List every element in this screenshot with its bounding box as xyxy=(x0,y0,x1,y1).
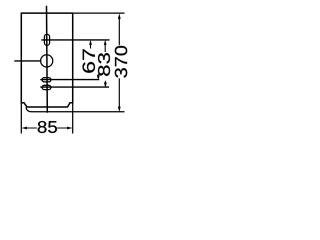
label 67 (rotated) xyxy=(83,49,96,72)
dimension line 67 bottom stub xyxy=(97,74,99,76)
wire right extension line (85) xyxy=(72,103,74,134)
label 83 (rotated) xyxy=(98,53,110,76)
dimension line 83 top stub xyxy=(104,44,106,52)
label 85 xyxy=(38,121,57,133)
arrow 83 top (points up to slot S1 line) xyxy=(104,40,107,45)
circle hole H1 (crosshair circle) xyxy=(41,55,53,67)
slot S2 (upper horizontal slot) xyxy=(42,78,51,82)
arrow 370 bottom (points down to bottom extension) xyxy=(118,107,121,113)
arrow 370 top (points up to top extension) xyxy=(118,13,121,19)
wire left extension line (85) xyxy=(20,103,22,134)
slot S3 (lower horizontal slot) xyxy=(42,85,51,89)
label 370 (rotated) xyxy=(115,46,127,78)
arrow 85 left (points left to left extension) xyxy=(22,127,27,130)
arrow 67 top (points up to slot S1 line) xyxy=(89,40,92,45)
arrow 67 bottom (points down to slot S2 line) xyxy=(97,75,100,80)
wire slot S3 centerline (83 bottom extension) xyxy=(40,86,109,88)
dimension line 67 top stub xyxy=(90,44,92,49)
wire top extension line (370 top) xyxy=(73,12,125,14)
wire bottom extension line (370 bottom, curved lead) xyxy=(26,107,125,112)
slot S1 (vertical slot) xyxy=(44,34,49,45)
part outline (bracket front view) xyxy=(21,13,72,107)
wire slot S2 centerline (67 bottom extension) xyxy=(40,79,99,81)
centerline vertical xyxy=(46,6,49,113)
dimension line 83 bottom stub xyxy=(104,81,106,83)
arrow 83 bottom (points down to slot S3 line) xyxy=(104,83,107,88)
dimension line 370 shaft segments xyxy=(118,19,120,108)
arrow 85 right (points right to right extension) xyxy=(67,127,72,130)
wire slot S1 centerline (67/83 top extension) xyxy=(41,39,109,41)
dimension line 85 shaft segments xyxy=(26,127,68,129)
wire circle H1 horizontal centerline (left) xyxy=(14,60,41,62)
